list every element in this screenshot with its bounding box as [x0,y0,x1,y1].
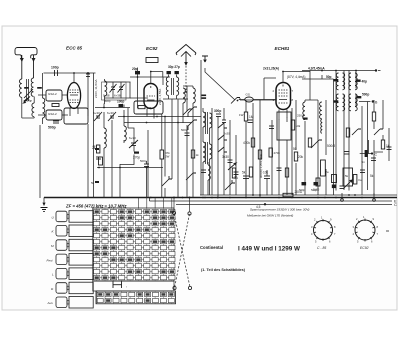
wire: EC92 grid circuit verticals [104,108,134,198]
wire: osc verticals [272,100,296,195]
inductor L21 right half [210,144,212,159]
box: component block [343,168,353,186]
core lines [27,79,29,101]
resistor R6 [258,150,261,159]
wire: diagonal band wire [205,68,235,100]
capacitor C13 40p (dark) [356,80,361,82]
wire: right edge verticals [374,100,383,195]
antenna: AM frame antenna symbol [15,48,37,80]
tuning arrow [24,89,34,103]
wire: vertical feed right of ECC85 [88,72,94,198]
trimmer C6 arrow [108,112,116,121]
box: switch matrix outer frame [93,208,174,281]
capacitor C33 [314,182,319,185]
capacitor C2 500p below [53,121,59,123]
capacitor C32 [302,182,307,185]
wire: button nub Fest [67,258,69,262]
wire: button nub M [67,243,69,247]
switch contacts row 1 [94,210,175,214]
wire: matrix row rail 4 [93,229,174,231]
tube V3 electrodes [279,85,288,104]
resistor R10 [353,175,357,185]
socket: EC92 base view [355,220,375,240]
capacitor C12b (dark) lower [334,100,339,102]
wire: L20 L21 drops [209,128,211,195]
resistor R12 [381,140,384,149]
button L [56,268,67,279]
inductor L11 IF1 bottom [336,94,338,111]
inductor L8 [183,88,185,103]
wire: button nub D [67,286,69,290]
svg-text:Aus: Aus [47,301,54,305]
capacitor C7 [96,157,101,159]
slider bar Aus [69,297,93,309]
switch contacts row 2 [94,216,175,220]
switch contacts row 6 [94,240,175,244]
wire: matrix row rail 6 [93,241,174,243]
wire: matrix row rail 1 [93,211,174,213]
wire: matrix row rail 7 [93,247,174,249]
wire: front circuit links [105,79,131,104]
capacitor C9 270p [134,152,139,154]
potentiometer arrow 5k [344,180,352,188]
resistor R4 [244,112,247,121]
diode D1 1N60 box [316,178,320,186]
inductor L20 right half [210,113,212,128]
inductor L3 lower antenna coil [32,103,34,117]
inductor L19 [105,81,107,96]
capacitor C16 [222,120,226,123]
resistor R1 small [52,104,59,107]
inductor L12br IF2 bottom right [355,94,357,111]
trimmer dark bar on AM line [202,95,207,97]
wire: antenna to tuned circuit [22,73,43,118]
inductor L7 right of V2 [166,77,168,95]
switch contacts lower row 1 [97,292,174,296]
wire: drop from bus [43,198,45,206]
resistor R8 [308,138,311,147]
capacitor C34 [340,186,345,189]
box: TW unit [332,175,337,183]
capacitor C12 50p (dark) [334,79,339,81]
wire: button nub K [67,229,69,233]
inductor L12r IF2 top right [355,73,357,90]
wire: dipole to circuit [185,91,187,93]
wire: matrix row rail 11 [93,271,174,273]
junction dots on bus [150,197,152,199]
capacitor C28 [185,133,190,136]
wire: top coupling [44,72,96,74]
switch contacts row 10 [94,264,175,268]
switch S3 [218,135,227,140]
switch S4 [218,147,227,152]
wire: 87V line to IF can [302,71,334,80]
wire: L8 L9 drops [183,86,193,123]
capacitor C4 100p [119,104,124,107]
trimmer C8 6+30 [129,140,138,148]
wire: matrix row rail 3 [93,223,174,225]
button Aus [56,297,67,308]
inductor L9 [193,88,195,103]
capacitor C21 [344,152,350,155]
wire: button nub U [67,215,69,219]
inductor L2 antenna coil right [31,78,33,96]
capacitor C30 [234,172,239,175]
resistor R9 [346,128,349,137]
switch S10 [183,109,192,115]
wire: right drop [295,163,297,195]
wire: left drop to bus [39,125,41,198]
wire: V3 pins [279,72,310,120]
resistor R19 10k [291,120,294,130]
wire: matrix row rail 12 [93,277,174,279]
terminal circle right1 [341,199,344,202]
inductor L15 [208,165,210,180]
switch S12 [188,120,197,130]
tube V3 ECH81 envelope [276,83,291,110]
wire: matrix row rail 9 [93,259,174,261]
capacitor C17 5k [243,176,249,179]
trimmer C5 arrow [94,112,102,121]
junction dots mid band [73,70,363,199]
switch S7 [374,129,383,135]
capacitor C3 at top [86,74,90,77]
transformer T1 core [206,112,208,134]
switch contacts row 3 [94,222,175,226]
svg-text:K: K [52,230,55,234]
wire: dipole feed dashes [184,62,188,66]
wire: R15 links [148,114,162,198]
wire: to B terminal [359,102,371,191]
switch contacts lower row 2 [97,298,174,302]
inductor L6 [124,126,126,141]
capacitor C29 [228,160,233,163]
resistor R21 470k [249,167,252,177]
capacitor C10 20p [135,71,140,74]
inductor L11b IF1 bottom right [343,94,345,111]
wire: tube V1 pins [70,73,78,116]
capacitor C1 100p [55,70,58,76]
switch contacts row 4 [94,228,175,232]
junction dots on bus [173,197,175,199]
wire: far right verticals [334,79,363,195]
box: bandfilter below EC92 [134,101,163,114]
capacitor C18 10k [264,176,270,179]
switch S13 [186,173,196,180]
wire: matrix row rail 5 [93,235,174,237]
oscillator can side rails [318,100,326,195]
stray mark [386,230,389,232]
wire: centre verticals [246,100,260,198]
trimmer C25 [110,84,117,93]
pulley top-right [188,212,191,215]
inductor L1 antenna coil left [20,79,22,97]
tube V2 electrodes [147,86,156,100]
switch S1 contact [231,98,240,104]
slider bar K [69,225,93,237]
switch S9 [162,176,172,186]
wire: anode line to A [302,70,376,72]
trimmer C26 [118,84,125,93]
resistor R11 [372,112,375,121]
button U [56,211,67,222]
switch contacts row 5 [94,234,175,238]
resistor R16 [191,150,194,158]
tube V1 ECC85 envelope [67,83,80,109]
slider bar Fest [69,254,93,266]
box: second triode enclosure [64,108,88,124]
junction dots [202,197,204,199]
wire: coupling top [95,104,130,108]
IF can 1 frame verticals [336,71,344,191]
inductor L10 IF1 top [336,73,338,90]
node C2 terminal [371,152,373,154]
box: filter unit GS2-2 lower [46,110,62,120]
inductor L12 IF2 top [349,73,351,90]
wire: L7 connections [163,75,188,100]
wire: matrix column rails [97,208,172,304]
switch contacts row 8 [94,252,175,256]
component: GS oval [245,97,254,102]
wire: button nub L [67,272,69,276]
svg-text:›: › [126,285,127,289]
wire: osc coil links [305,71,318,196]
resistor R13 on bus [283,193,293,196]
switch contacts row 12 [94,276,175,280]
wire: misc links [147,86,194,198]
svg-text:U: U [52,215,55,219]
capacitor C11 [167,71,171,74]
node B terminal [372,100,374,102]
switch contacts row 11 [94,270,175,274]
svg-text:L: L [52,273,54,277]
pulley bottom-left [173,286,176,289]
capacitor C31 [277,168,282,171]
switch S8 TA [225,180,235,190]
resistor R5 [251,138,254,147]
capacitor C38 dark (5n) [365,150,368,157]
wire: terminal stubs [342,193,374,199]
pulley top-left [172,211,175,214]
inductor L4 left of GS boxes [43,98,45,118]
resistor R15 47k/2W [160,150,164,159]
pulley bottom-right [188,286,191,289]
slider bar M [69,239,93,251]
resistor R18 [285,168,288,177]
IF can 2 frame verticals [349,71,356,191]
wire: C terminal link [360,140,372,154]
capacitor C14 500p (dark) [357,96,362,98]
wire: L-drop to E line [149,198,151,202]
resistor R3 [146,58,158,63]
capacitor C36 dark [95,148,99,150]
capacitor C27 [144,164,149,167]
capacitor C15 300p [216,114,221,117]
switch contacts row 7 [94,246,175,250]
svg-text:Fest: Fest [47,258,53,262]
resistor R14 inside [138,106,145,109]
wire: bus line C [176,204,392,206]
wire: matrix column stubs to bus [138,198,171,209]
transformer T2 core [206,142,208,164]
ground [41,208,48,212]
wire: V2 anode top run [130,68,170,109]
socket: ECC85 base view [314,221,333,240]
wire: matrix row rail 8 [93,253,174,255]
inductor L12b IF2 bottom [349,94,351,111]
switch S5 arrow [228,163,236,170]
wire: left group verticals [203,108,212,195]
node A terminal [375,69,377,71]
inductor L13 [203,112,205,127]
button K [56,226,67,237]
node 4,5 junction [264,203,266,205]
box: ECH81 output filter [277,112,291,140]
capacitor C35 [248,120,253,123]
box: matrix middle strip [93,281,174,291]
antenna: small aux antenna mark [202,56,208,62]
box: 1n [99,157,103,165]
wire: AGC rail [97,167,163,169]
button D [56,283,67,294]
svg-text:M: M [51,244,54,248]
button M [56,240,67,251]
switch S6 [352,129,361,135]
resistor R17 [269,148,272,157]
resistor R20 [232,168,235,178]
inductor L17 osc top [320,102,322,119]
inductor L5 [104,128,106,148]
tube V1 internal electrodes [70,90,79,103]
capacitor C39 [387,147,392,150]
inductor L14 [203,142,205,162]
inductor L16 [303,102,305,120]
resistor R7 [294,152,297,161]
wire: mixer input [240,98,276,100]
wire: bus line E [150,200,393,202]
antenna: FM dipole symbol [176,45,196,63]
trimmer bar right [37,87,42,89]
wire: bus line 2 [200,194,397,196]
wire: right outer vertical [388,128,390,161]
wire: matrix row rail 2 [93,217,174,219]
capacitor C20 [303,118,308,120]
wire: pulley feeds [174,198,190,212]
wire: vertical at 201 [200,60,202,195]
slider bar L [69,268,93,280]
button Fest [56,254,67,265]
slider bar D [69,282,93,294]
terminal circle right2 [373,199,376,202]
svg-text:D: D [51,287,54,291]
wire: chassis bus (thick) [44,197,397,199]
wire: V2 pins [147,72,154,119]
switch S11 [188,107,197,117]
box: FM trimmer subgroup frame [102,82,127,100]
wire: below tube h-links [118,98,201,123]
wire: drops [246,170,267,196]
inductor L10b IF1 top right [343,73,345,90]
resistor R2 2k [97,145,100,153]
inductor L17b osc bottom [321,119,322,133]
slider bar U [69,211,93,223]
box: filter unit GS2-2 upper [46,90,62,101]
box: 500/3 padder [321,160,326,176]
capacitor C22 [360,170,365,173]
box: switch matrix lower block [96,291,176,304]
wire: matrix row rail 10 [93,265,174,267]
switch S2 [218,123,227,128]
trimmer bar left [24,87,29,89]
capacitor C37 dark [95,181,99,183]
wire: button nub Aus [67,301,69,305]
dial cord drive crossed lines [174,214,190,288]
tube V2 EC92 envelope [144,84,158,109]
switch contacts row 9 [94,258,175,262]
wire: mid group verticals [218,108,236,199]
capacitor C19 [269,126,274,129]
wire: GS box links [38,95,68,124]
capacitor C24 [201,170,206,173]
wire: left feed into ECH81 grid [239,78,276,100]
trimmer symbol in matrix strip [113,282,122,289]
capacitor C23 [371,158,376,161]
